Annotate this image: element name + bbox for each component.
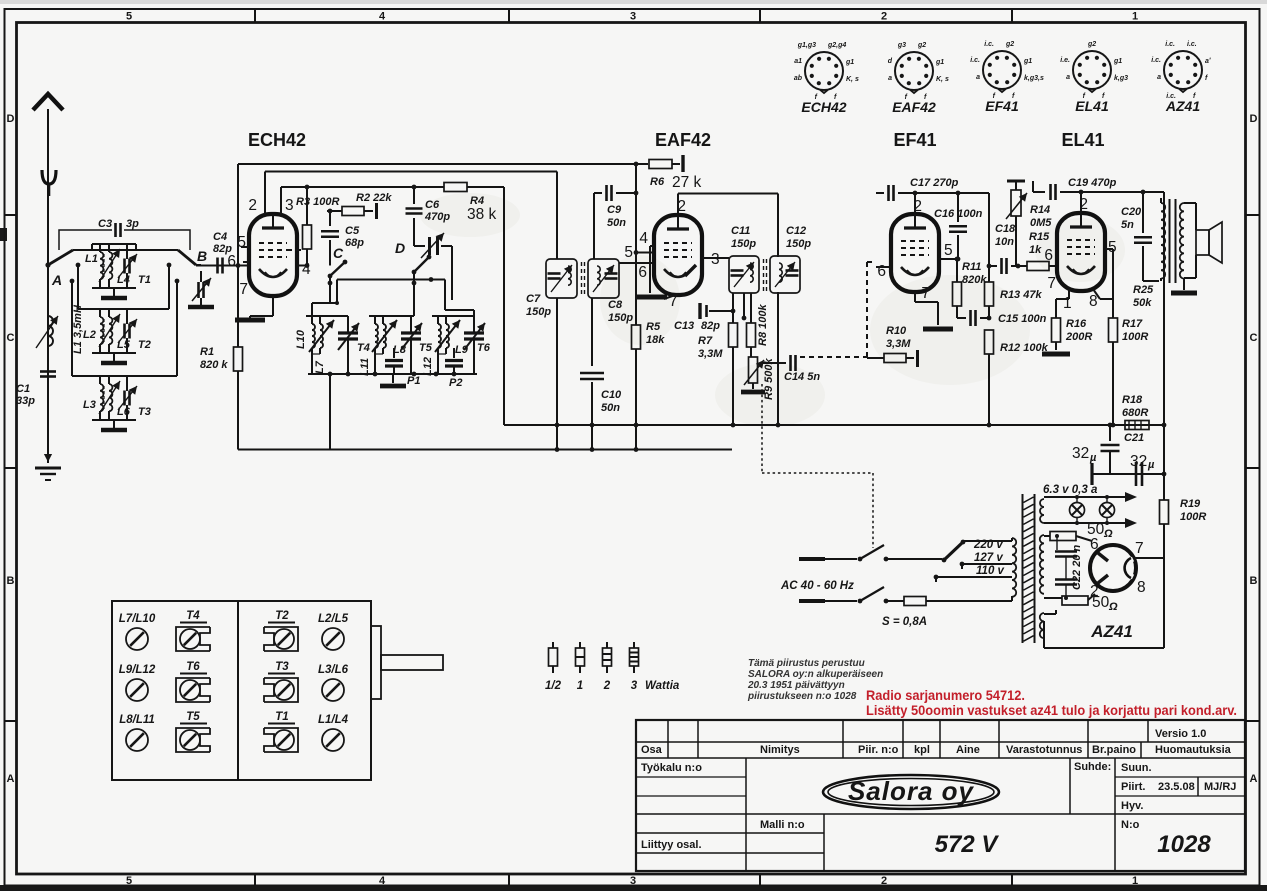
title block outline: [636, 720, 1245, 871]
svg-text:R8 100k: R8 100k: [757, 304, 769, 346]
C17 coupling line: [876, 192, 884, 194]
svg-text:T5: T5: [186, 711, 200, 723]
svg-text:k,g3,s: k,g3,s: [1024, 75, 1044, 82]
svg-text:EAF42: EAF42: [892, 99, 936, 115]
osc group top feeds: [328, 281, 333, 286]
svg-text:C21: C21: [1124, 432, 1144, 444]
svg-text:T4: T4: [357, 342, 370, 354]
heater rail bottom: [1044, 522, 1125, 524]
svg-text:C6: C6: [425, 199, 440, 211]
IF1 secondary to EAF42 grid: [619, 262, 655, 264]
voltage selector arm: [942, 558, 947, 563]
trimmer D cap: [414, 245, 425, 247]
svg-text:T2: T2: [275, 610, 289, 622]
resistor R13 47k: [988, 193, 990, 282]
svg-text:110 v: 110 v: [976, 565, 1005, 577]
ground L2 group: [101, 361, 127, 366]
IF1 core dashes: [581, 262, 583, 295]
svg-text:L3/L6: L3/L6: [318, 664, 349, 676]
svg-text:i.c.: i.c.: [1165, 41, 1175, 48]
svg-text:1: 1: [577, 680, 583, 692]
tap 220v: [963, 540, 1012, 542]
svg-text:150p: 150p: [608, 312, 633, 324]
svg-text:P2: P2: [449, 377, 462, 389]
EL41 pin stubs: [1080, 192, 1082, 213]
capacitor C13 82p: [698, 303, 701, 319]
tube AZ41: [1090, 545, 1136, 591]
svg-text:AZ41: AZ41: [1165, 98, 1200, 114]
svg-text:T5: T5: [419, 342, 433, 354]
svg-text:L5: L5: [117, 339, 131, 351]
resistor R7 3,3M: [732, 293, 734, 323]
vertical x636 screen line: [635, 164, 637, 325]
svg-text:C4: C4: [213, 231, 227, 243]
svg-text:50n: 50n: [601, 402, 620, 414]
coil L3: [100, 384, 103, 411]
svg-text:1/2: 1/2: [545, 680, 562, 692]
svg-text:R7: R7: [698, 335, 713, 347]
svg-text:µ: µ: [1147, 459, 1155, 471]
switch C: [328, 274, 333, 279]
svg-text:EF41: EF41: [985, 98, 1019, 114]
svg-text:3,3M: 3,3M: [698, 348, 723, 360]
svg-text:C17 270p: C17 270p: [910, 177, 959, 189]
svg-text:L4: L4: [117, 274, 130, 286]
power transformer HT winding: [1040, 535, 1044, 594]
svg-text:A: A: [7, 773, 15, 785]
power transformer core: [1022, 494, 1024, 643]
svg-text:10n: 10n: [995, 236, 1014, 248]
EF41 pin stubs: [914, 193, 916, 214]
svg-text:7: 7: [1047, 275, 1056, 292]
output transformer core: [1169, 199, 1171, 283]
svg-text:T3: T3: [275, 661, 289, 673]
ECH42 pin stubs: [264, 172, 266, 215]
R9 wiper dotted line: [761, 384, 763, 473]
wattage legend 1/2 W: [552, 642, 554, 648]
resistor R8 100k: [750, 293, 752, 323]
svg-text:33p: 33p: [16, 395, 35, 407]
svg-text:SALORA oy:n alkuperäiseen: SALORA oy:n alkuperäiseen: [748, 669, 883, 680]
wattage legend 2 W: [606, 642, 608, 648]
svg-text:L2/L5: L2/L5: [318, 613, 349, 625]
svg-text:R11: R11: [962, 261, 981, 273]
right bus vertical: [1163, 192, 1165, 500]
osc coil group 3 (L12 L9 T6): [438, 324, 441, 348]
tap 110v: [936, 576, 1012, 578]
band select wires left: [76, 263, 81, 268]
svg-text:150p: 150p: [526, 306, 551, 318]
antenna: [47, 109, 49, 250]
svg-text:8: 8: [1137, 579, 1146, 596]
svg-text:Huomautuksia: Huomautuksia: [1155, 744, 1232, 756]
svg-text:50n: 50n: [607, 217, 626, 229]
svg-text:3: 3: [285, 197, 294, 214]
svg-text:EL41: EL41: [1075, 98, 1109, 114]
svg-text:D: D: [7, 113, 15, 125]
svg-text:AC 40 - 60 Hz: AC 40 - 60 Hz: [780, 580, 854, 592]
mains switch top: [858, 557, 863, 562]
svg-text:100R: 100R: [1122, 331, 1148, 343]
margin ticks right: [1246, 214, 1260, 216]
resistor R5 18k: [632, 325, 641, 349]
svg-text:C14 5n: C14 5n: [784, 371, 820, 383]
svg-text:D: D: [1250, 113, 1258, 125]
svg-text:R3 100R: R3 100R: [296, 196, 339, 208]
svg-text:Wattia: Wattia: [645, 680, 680, 692]
svg-text:P1: P1: [407, 375, 420, 387]
svg-text:8: 8: [1089, 293, 1098, 310]
resistor R10 3,3M: [867, 357, 884, 359]
resistor R17 100R: [1112, 299, 1114, 318]
svg-text:ab: ab: [794, 75, 803, 82]
power transformer heater winding: [1040, 499, 1044, 523]
ground L1 group: [101, 296, 127, 301]
AC input stub bottom: [799, 599, 825, 603]
svg-text:i.c.: i.c.: [970, 57, 980, 64]
wattage legend 3 W: [633, 642, 635, 648]
svg-text:C: C: [7, 332, 15, 344]
scan punch mark left edge: [0, 228, 7, 241]
svg-text:C3: C3: [98, 218, 112, 230]
svg-text:127 v: 127 v: [974, 552, 1003, 564]
svg-text:Malli n:o: Malli n:o: [760, 819, 805, 831]
svg-text:L7: L7: [314, 360, 326, 374]
potentiometer R9 500k: [749, 357, 758, 383]
svg-text:ECH42: ECH42: [248, 130, 306, 150]
svg-text:C8: C8: [608, 299, 623, 311]
svg-text:Br.paino: Br.paino: [1092, 744, 1136, 756]
node B trimmer: [196, 264, 201, 266]
margin ticks left: [5, 214, 17, 216]
svg-text:Työkalu n:o: Työkalu n:o: [641, 762, 702, 774]
svg-text:L7/L10: L7/L10: [119, 613, 156, 625]
svg-text:C1: C1: [16, 383, 30, 395]
svg-text:R6: R6: [650, 176, 665, 188]
resistor R19 100R: [1163, 474, 1165, 500]
resistor R18 680R: [1125, 421, 1149, 430]
wire antenna down: [47, 250, 49, 463]
svg-text:i.e.: i.e.: [1060, 57, 1070, 64]
IF1 cell C8: [588, 259, 619, 298]
svg-text:4: 4: [379, 875, 386, 887]
wires L2 group: [99, 309, 101, 317]
ground antenna: [47, 446, 49, 462]
svg-text:7: 7: [1135, 540, 1144, 557]
svg-text:g1,g3: g1,g3: [797, 42, 816, 49]
AZ41 filament stubs: [1098, 553, 1108, 561]
svg-text:82p: 82p: [701, 320, 720, 332]
potentiometer R14 0M5: [1007, 180, 1025, 183]
svg-text:a: a: [1157, 74, 1161, 81]
svg-text:i.c.: i.c.: [1187, 41, 1197, 48]
ECH42 cathode ground: [235, 318, 265, 323]
terminal box outline: [112, 601, 371, 780]
svg-text:k,g3: k,g3: [1114, 75, 1128, 82]
EF41 cathode ground: [923, 327, 953, 332]
svg-text:T2: T2: [138, 339, 151, 351]
svg-text:C15 100n: C15 100n: [998, 313, 1047, 325]
svg-text:T4: T4: [186, 610, 200, 622]
svg-text:C20: C20: [1121, 206, 1142, 218]
svg-text:T6: T6: [477, 342, 491, 354]
IF2 wires: [743, 293, 745, 318]
svg-text:5n: 5n: [1121, 219, 1134, 231]
switch arm node A: [48, 250, 73, 265]
svg-text:a1: a1: [794, 58, 802, 65]
svg-text:6.3 v 0,3 a: 6.3 v 0,3 a: [1043, 484, 1098, 496]
svg-text:2: 2: [248, 197, 257, 214]
svg-text:C19 470p: C19 470p: [1068, 177, 1117, 189]
svg-text:2: 2: [1079, 196, 1088, 213]
svg-text:1: 1: [1063, 295, 1072, 312]
svg-text:ECH42: ECH42: [801, 99, 846, 115]
svg-text:T1: T1: [275, 711, 288, 723]
IF2 primary bottom to rail: [777, 292, 779, 425]
wire top bus to group1: [91, 244, 93, 250]
svg-text:i.c.: i.c.: [984, 41, 994, 48]
svg-text:470p: 470p: [424, 211, 450, 223]
AZ41 anode wire: [1135, 557, 1164, 559]
svg-text:L9/L12: L9/L12: [119, 664, 156, 676]
capacitor C6 470p: [413, 187, 415, 204]
svg-text:a: a: [888, 75, 892, 82]
svg-text:C12: C12: [786, 225, 806, 237]
svg-text:R13 47k: R13 47k: [1000, 289, 1042, 301]
osc coil group 1 (L10 L7 T4): [312, 324, 315, 348]
svg-text:Tämä piirustus perustuu: Tämä piirustus perustuu: [748, 658, 865, 669]
tap stubs: [961, 564, 963, 569]
svg-text:Ω: Ω: [1103, 528, 1113, 540]
svg-text:R1: R1: [200, 346, 214, 358]
EAF42 pin stubs: [650, 245, 654, 247]
svg-text:T1: T1: [138, 274, 151, 286]
AVC dashed line: [800, 356, 867, 358]
antenna hook: [42, 170, 56, 184]
svg-text:EL41: EL41: [1061, 130, 1104, 150]
power transformer rectifier filament winding: [1040, 613, 1044, 638]
svg-text:2: 2: [603, 680, 611, 692]
svg-text:3: 3: [711, 251, 720, 268]
wattage legend 1 W: [579, 642, 581, 648]
svg-text:B: B: [197, 248, 207, 264]
svg-text:Versio 1.0: Versio 1.0: [1155, 728, 1206, 740]
svg-text:820k: 820k: [962, 274, 987, 286]
svg-text:A: A: [1250, 773, 1258, 785]
tube EAF42: [654, 215, 702, 295]
svg-text:5: 5: [126, 875, 132, 887]
trimmer T2: [123, 324, 126, 339]
svg-text:EAF42: EAF42: [655, 130, 711, 150]
svg-text:6: 6: [227, 253, 236, 270]
svg-text:R25: R25: [1133, 284, 1154, 296]
svg-text:R2 22k: R2 22k: [356, 192, 392, 204]
svg-text:38 k: 38 k: [467, 206, 497, 223]
AC input stub top: [799, 557, 825, 561]
svg-text:B: B: [1250, 575, 1258, 587]
svg-text:g2: g2: [1005, 41, 1014, 48]
svg-text:3: 3: [630, 875, 636, 887]
capacitor C20 5n: [1142, 192, 1144, 233]
osc bottom bus: [308, 373, 477, 375]
svg-text:a: a: [1066, 74, 1070, 81]
svg-text:R5: R5: [646, 321, 661, 333]
svg-text:6: 6: [638, 264, 647, 281]
svg-text:Suhde:: Suhde:: [1074, 761, 1111, 773]
capacitor C21 32u: [1109, 425, 1111, 441]
svg-text:572 V: 572 V: [935, 831, 1000, 858]
svg-text:1028: 1028: [1157, 831, 1211, 858]
wire pin5 line to R11: [955, 257, 960, 262]
svg-text:L3: L3: [83, 399, 96, 411]
svg-text:C18: C18: [995, 223, 1016, 235]
input top bus: [73, 249, 178, 251]
capacitor C22 20n pair: [1056, 536, 1058, 550]
svg-text:L2: L2: [83, 329, 96, 341]
svg-text:Ω: Ω: [1108, 601, 1118, 613]
svg-text:C16 100n: C16 100n: [934, 208, 983, 220]
svg-text:2: 2: [677, 198, 686, 215]
svg-text:R12 100k: R12 100k: [1000, 342, 1049, 354]
output transformer primary: [1161, 203, 1165, 279]
svg-text:K, s: K, s: [936, 76, 949, 83]
svg-text:1: 1: [1132, 875, 1138, 887]
svg-text:Radio sarjanumero 54712.: Radio sarjanumero 54712.: [866, 687, 1025, 703]
svg-text:3,3M: 3,3M: [886, 338, 911, 350]
power transformer primary: [1012, 538, 1016, 597]
ground L3 group: [101, 428, 127, 433]
svg-text:piirustukseen n:o 1028: piirustukseen n:o 1028: [747, 691, 857, 702]
svg-text:aʹ: aʹ: [1205, 58, 1211, 65]
IF2 cell C11: [729, 256, 759, 293]
resistor R6 27k: [649, 160, 672, 169]
speaker ground: [1183, 278, 1185, 290]
svg-text:C: C: [1250, 332, 1258, 344]
capacitor C5 68p: [329, 211, 331, 226]
svg-text:6: 6: [1044, 247, 1053, 264]
svg-text:Piirt.: Piirt.: [1121, 781, 1145, 793]
svg-text:Nimitys: Nimitys: [760, 744, 800, 756]
svg-text:D: D: [395, 240, 405, 256]
rail screen y186: [281, 186, 444, 188]
svg-text:2: 2: [913, 198, 922, 215]
wire grid line B to tube: [196, 265, 250, 267]
resistor R2 22k: [327, 210, 342, 212]
osc upper routing wire: [337, 279, 445, 281]
svg-text:T6: T6: [186, 661, 200, 673]
svg-text:R19: R19: [1180, 498, 1201, 510]
capacitor C15 100n: [957, 317, 966, 319]
ground rail y449: [238, 449, 732, 451]
AZ41 filament return: [1043, 621, 1045, 648]
osc coil group 2 (L11 L8 T5): [375, 324, 378, 348]
osc ground: [392, 374, 394, 383]
resistor R4 38k: [444, 183, 467, 192]
svg-text:kpl: kpl: [914, 744, 930, 756]
tube ECH42: [249, 214, 297, 296]
svg-text:18k: 18k: [646, 334, 665, 346]
svg-text:R16: R16: [1066, 318, 1087, 330]
resistor R16 200R: [1052, 318, 1061, 342]
choke L1 3,5mH: [48, 316, 53, 346]
svg-text:L1/L4: L1/L4: [318, 714, 349, 726]
svg-text:0M5: 0M5: [1030, 217, 1052, 229]
svg-text:N:o: N:o: [1121, 819, 1140, 831]
svg-text:Varastotunnus: Varastotunnus: [1006, 744, 1082, 756]
svg-text:i.c.: i.c.: [1151, 57, 1161, 64]
svg-text:3: 3: [630, 11, 636, 23]
svg-text:A: A: [51, 272, 62, 288]
svg-text:R14: R14: [1030, 204, 1050, 216]
coil L2: [100, 317, 103, 344]
svg-text:50k: 50k: [1133, 297, 1152, 309]
wires L3 group: [99, 376, 101, 384]
svg-text:32: 32: [1072, 445, 1089, 462]
svg-text:Hyv.: Hyv.: [1121, 800, 1143, 812]
svg-text:150p: 150p: [731, 238, 756, 250]
svg-text:20.3 1951 päivättyyn: 20.3 1951 päivättyyn: [747, 680, 845, 691]
svg-text:Osa: Osa: [641, 744, 663, 756]
svg-text:g2,g4: g2,g4: [827, 42, 846, 49]
title block vertical lines: [667, 720, 669, 758]
capacitor 32u second: [1135, 462, 1138, 486]
C19 anode line: [1033, 191, 1045, 193]
resistor R12 100k: [985, 330, 994, 354]
svg-text:C22 20 n: C22 20 n: [1071, 544, 1083, 590]
rail top y164: [238, 163, 648, 165]
EAF42 diode plate: [685, 265, 696, 276]
svg-text:2: 2: [881, 11, 887, 23]
tube pinout EF41: [970, 41, 1044, 114]
junction dots main rail: [555, 423, 560, 428]
svg-text:5: 5: [624, 244, 633, 261]
capacitor C9 50n: [594, 192, 602, 194]
svg-text:6: 6: [877, 263, 886, 280]
svg-text:Liittyy osal.: Liittyy osal.: [641, 839, 702, 851]
svg-text:7: 7: [921, 285, 930, 302]
svg-text:MJ/RJ: MJ/RJ: [1204, 781, 1236, 793]
resistor R15 1k: [1027, 262, 1049, 271]
tube EL41: [1057, 213, 1105, 291]
svg-text:5: 5: [126, 11, 132, 23]
speaker: [1184, 202, 1196, 204]
svg-text:EF41: EF41: [893, 130, 936, 150]
capacitor C3 3p bypass wire: [59, 230, 112, 250]
svg-text:C: C: [333, 245, 344, 261]
title block horizontal lines: [636, 741, 1245, 743]
svg-text:L8/L11: L8/L11: [119, 714, 155, 726]
svg-text:C13: C13: [674, 320, 694, 332]
tap 127v: [962, 563, 1012, 565]
resistor R11 820k: [956, 259, 958, 282]
coil L1: [100, 252, 103, 279]
svg-text:220 v: 220 v: [973, 539, 1003, 551]
title block left sub rows: [636, 776, 746, 778]
trimmer T1: [123, 259, 126, 274]
switch shaft: [371, 626, 381, 699]
svg-text:680R: 680R: [1122, 407, 1148, 419]
svg-text:Piir. n:o: Piir. n:o: [858, 744, 899, 756]
svg-text:g1: g1: [1113, 58, 1122, 65]
svg-text:B: B: [7, 575, 15, 587]
margin ticks bottom: [254, 874, 256, 886]
output transformer secondary: [1180, 203, 1184, 279]
padding cap group 3: [453, 348, 455, 358]
capacitor C18 10n: [989, 265, 997, 267]
heater rail top: [1044, 496, 1125, 498]
IF2 cell C12: [770, 256, 800, 293]
svg-text:L6: L6: [117, 406, 131, 418]
